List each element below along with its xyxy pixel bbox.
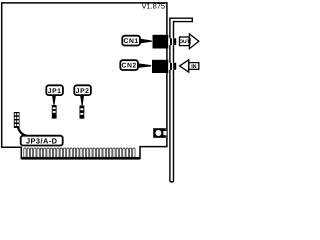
edge connector fingers [21, 148, 140, 160]
svg-text:IN: IN [191, 64, 196, 70]
jumper block JP3/A-D [14, 112, 20, 128]
OUT arrow [179, 34, 199, 49]
pointer CN2 [138, 63, 151, 68]
bracket [170, 18, 192, 182]
svg-text:CN2: CN2 [122, 63, 137, 70]
card outline [2, 3, 167, 159]
IN arrow [180, 60, 199, 72]
svg-text:JP3/A-D: JP3/A-D [26, 136, 58, 145]
jumper block JP1 [52, 105, 57, 119]
svg-text:V1.875: V1.875 [142, 2, 165, 11]
label JP3/A-D [21, 136, 63, 146]
pointer JP1 [52, 95, 56, 105]
svg-text:JP2: JP2 [76, 88, 90, 95]
connector CN1 [153, 35, 177, 49]
version label V1.875 [142, 2, 165, 11]
jumper block JP2 [80, 106, 85, 119]
svg-text:OUT: OUT [179, 39, 190, 45]
label CN2 [120, 60, 138, 70]
pointer JP3/A-D [18, 127, 27, 136]
connector CN2 [152, 60, 176, 73]
label JP2 [74, 85, 91, 95]
pointer CN1 [140, 39, 152, 44]
screw tab [153, 128, 166, 138]
pointer JP2 [80, 95, 84, 106]
label CN1 [122, 36, 140, 46]
svg-text:JP1: JP1 [48, 88, 62, 95]
svg-text:CN1: CN1 [124, 38, 139, 45]
label JP1 [46, 85, 63, 95]
